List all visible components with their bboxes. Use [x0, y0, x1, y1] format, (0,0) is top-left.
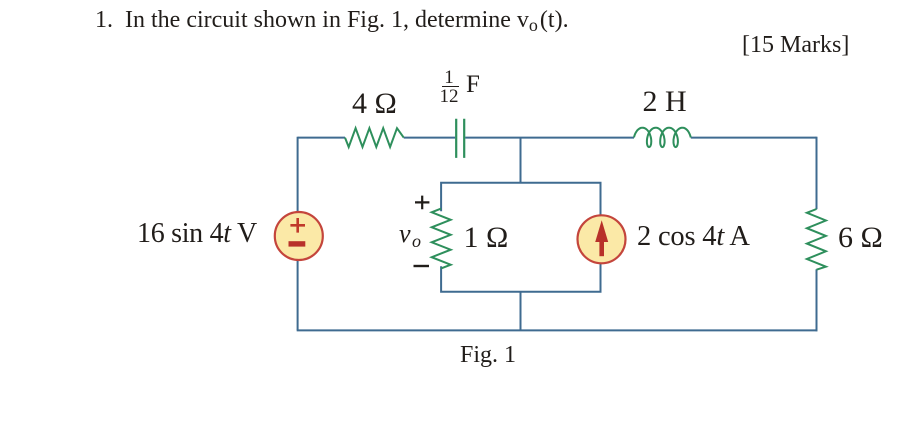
capacitor unit label F — [466, 72, 480, 97]
plus polarity mark — [415, 196, 429, 210]
wire right edge lower — [816, 269, 818, 331]
wire inner box bottom — [441, 263, 600, 292]
marks label — [742, 33, 849, 57]
resistor 6ohm label — [838, 223, 883, 253]
voltage source minus bar — [289, 241, 306, 246]
voltage source label — [137, 220, 257, 248]
resistor R 4ohm label — [352, 89, 397, 119]
current source arrow — [595, 220, 608, 242]
wire top-left segment — [298, 137, 345, 139]
fraction denominator 12 — [439, 87, 459, 106]
node vo label — [399, 221, 421, 247]
minus polarity mark — [414, 265, 430, 267]
wire left edge upper — [297, 137, 299, 212]
figure caption — [460, 343, 516, 367]
resistor 6ohm vertical zigzag — [807, 209, 826, 270]
capacitor value label 1/12 F — [439, 68, 459, 87]
fraction bar — [442, 86, 459, 88]
resistor R 4ohm zigzag — [345, 128, 404, 147]
inductor label 2 H — [643, 87, 687, 117]
wire inductor to top-right corner — [691, 137, 817, 139]
voltage source plus sign — [290, 218, 305, 233]
wire between resistor and capacitor — [404, 137, 456, 139]
wire drop from inner box bottom to bottom edge — [520, 292, 522, 331]
wire bottom edge — [297, 329, 818, 331]
current source I1 circle — [578, 215, 626, 263]
capacitor C 1/12F plates — [456, 119, 464, 158]
wire junction drop from top to inner box — [520, 138, 522, 183]
wire inner box top — [441, 183, 600, 216]
resistor 1ohm vertical zigzag — [432, 209, 451, 269]
inductor L 2H coil — [634, 128, 691, 147]
resistor 1ohm label — [464, 223, 509, 253]
title text — [95, 8, 569, 32]
wire left edge lower — [297, 260, 299, 330]
current source label — [637, 223, 750, 252]
voltage source V1 circle — [275, 212, 323, 260]
wire capacitor to inductor with junction — [465, 137, 634, 139]
wire right edge upper — [816, 137, 818, 210]
